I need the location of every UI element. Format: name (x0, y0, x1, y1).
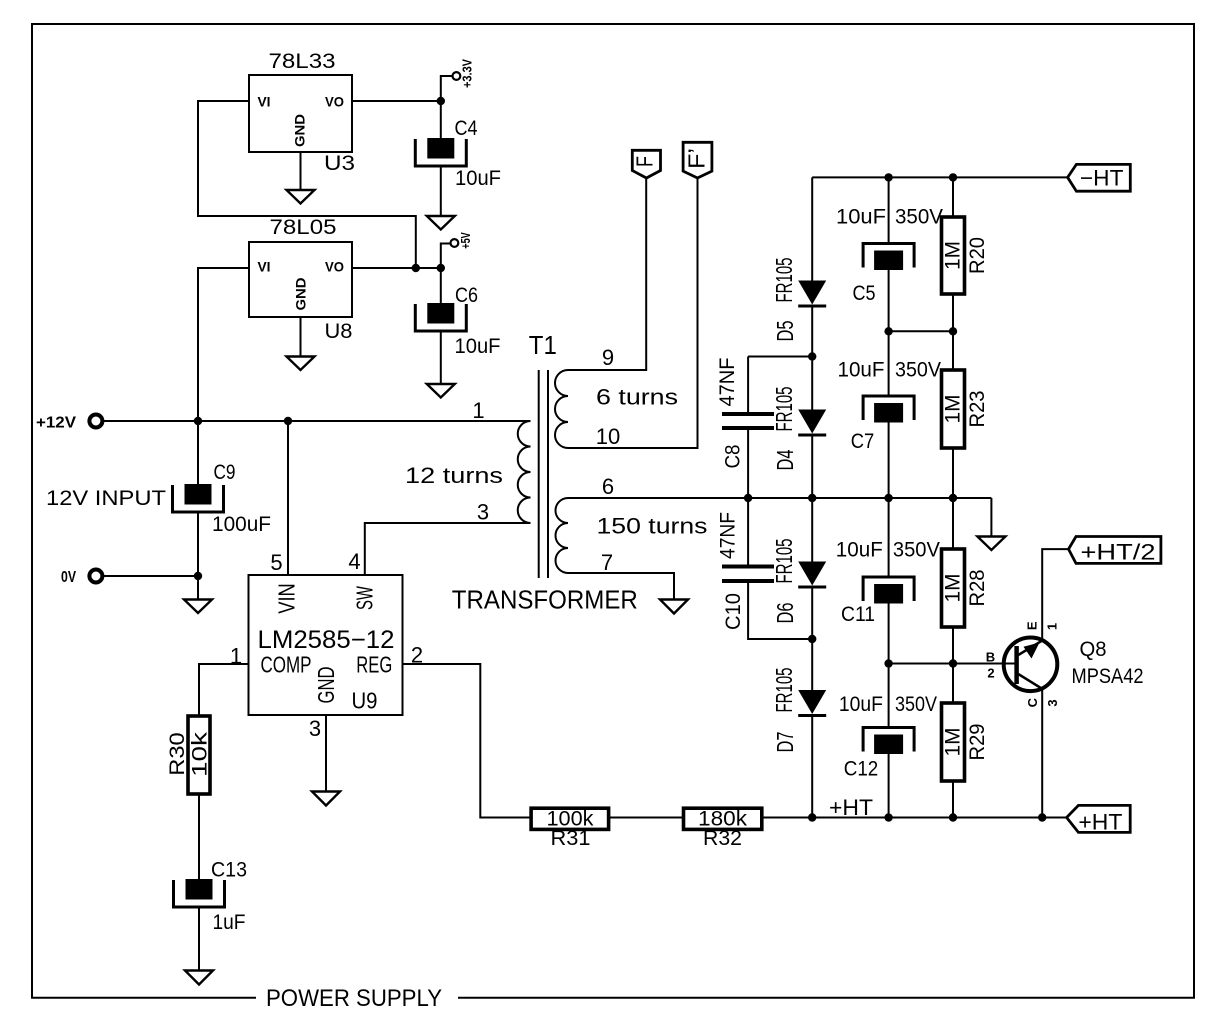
svg-text:R28: R28 (966, 570, 989, 607)
node -HT R20 (949, 173, 957, 181)
transformer secondary 6 turns winding (555, 370, 568, 448)
node U8 output to U3 route (412, 264, 420, 272)
wire C4 to ground (440, 168, 442, 217)
wire to +3.3V terminal (441, 76, 453, 101)
svg-text:VI: VI (258, 94, 271, 110)
wire U8 VI from +12V rail (198, 268, 249, 421)
svg-text:REG: REG (356, 652, 392, 678)
wire node to capacitor C6 (440, 268, 442, 303)
regulator U8 box (249, 242, 352, 317)
wire node to ground (197, 576, 199, 600)
svg-text:C: C (1025, 697, 1040, 707)
svg-text:12 turns: 12 turns (405, 463, 503, 488)
svg-text:TRANSFORMER: TRANSFORMER (452, 585, 638, 615)
wire T1 pin 6 node line (568, 497, 991, 499)
node3 resistor side (949, 659, 957, 667)
wire U9 REG to R31 (403, 664, 532, 818)
svg-text:350V: 350V (895, 693, 937, 716)
svg-text:D5: D5 (772, 321, 798, 342)
svg-text:0V: 0V (61, 569, 76, 586)
wire +12V node to C9 (197, 421, 199, 484)
wire -HT to R20 (952, 177, 954, 217)
svg-text:C9: C9 (214, 461, 236, 484)
svg-text:GND: GND (292, 114, 308, 147)
node +12V to U9 VIN (284, 417, 292, 425)
svg-text:78L33: 78L33 (269, 50, 336, 73)
svg-text:3: 3 (1045, 699, 1060, 706)
wire D7 to +HT line (811, 716, 813, 818)
wire U9 VIN (287, 421, 289, 575)
wire +HT line (762, 817, 1067, 819)
svg-text:1: 1 (472, 398, 484, 423)
svg-text:350V: 350V (895, 359, 941, 382)
wire node3 to C12 (888, 664, 890, 728)
svg-text:R32: R32 (703, 827, 742, 850)
wire to +5V terminal (441, 244, 451, 269)
svg-text:10uF: 10uF (455, 167, 501, 190)
svg-text:U3: U3 (324, 152, 355, 175)
wire node to capacitor C4 (440, 101, 442, 138)
svg-text:3: 3 (309, 716, 321, 741)
resistor R23 (942, 370, 965, 448)
svg-text:78L05: 78L05 (270, 216, 337, 239)
node +HT R29 (949, 813, 957, 821)
wire C10 top plate lead (747, 498, 749, 565)
capacitor C11 (863, 577, 914, 601)
svg-text:T1: T1 (529, 330, 557, 360)
svg-text:E: E (1025, 621, 1040, 630)
transformer secondary 150 turns winding (556, 498, 569, 573)
svg-text:−HT: −HT (1080, 166, 1124, 191)
capacitor C13 (186, 879, 213, 900)
svg-text:Q8: Q8 (1080, 638, 1107, 661)
capacitor C7 (863, 396, 914, 420)
svg-text:350V: 350V (893, 539, 940, 562)
svg-text:F: F (632, 156, 658, 167)
capacitor C4 (427, 138, 454, 159)
svg-text:FR105: FR105 (771, 668, 797, 713)
wire node2 to R28 (952, 498, 954, 549)
wire T1 pin 9 to F flag (568, 178, 646, 370)
capacitor C12 (863, 728, 914, 752)
svg-text:R23: R23 (966, 391, 989, 428)
flag F (632, 150, 660, 178)
svg-text:+12V: +12V (36, 415, 76, 432)
wire cap column -HT to C5 (888, 177, 890, 243)
resistor R28 (942, 549, 965, 627)
svg-text:D7: D7 (772, 732, 798, 753)
wire U8 GND to ground (300, 317, 302, 357)
node chain pin6 junction (808, 494, 816, 502)
transistor Q8 emitter arrow (1024, 643, 1040, 659)
node1 cap side (884, 327, 892, 335)
svg-text:10uF: 10uF (836, 206, 886, 229)
ground below U9 (312, 792, 340, 806)
svg-text:C8: C8 (722, 445, 745, 469)
svg-text:FR105: FR105 (771, 258, 797, 303)
terminal circle +5V (451, 239, 459, 247)
wire node3 row to Q8 base (889, 663, 1017, 665)
resistor R31 (531, 808, 609, 829)
resistor R32 (684, 808, 762, 829)
svg-text:+3.3V: +3.3V (460, 59, 475, 88)
wire diode chain top segment (811, 177, 813, 280)
transistor Q8 base bar (1014, 646, 1019, 684)
svg-text:47NF: 47NF (716, 358, 739, 407)
wire C9 to 0V line (197, 514, 199, 577)
wire C13 to ground (198, 909, 200, 971)
svg-text:U8: U8 (325, 320, 353, 343)
node +12V to C9 (194, 417, 202, 425)
wire C12 to +HT (888, 754, 890, 818)
svg-text:4: 4 (348, 549, 360, 574)
svg-text:12V INPUT: 12V INPUT (46, 487, 166, 510)
node +HT diode chain (808, 813, 816, 821)
svg-text:1M: 1M (942, 728, 965, 757)
terminal circle +3.3V (453, 72, 461, 80)
svg-text:COMP: COMP (261, 652, 312, 678)
svg-text:9: 9 (602, 345, 614, 370)
wire R28 to node3 (952, 627, 954, 664)
wire C7 to node2 (888, 423, 890, 499)
svg-text:47NF: 47NF (717, 512, 740, 559)
terminal circle +12V (89, 415, 102, 428)
wire node3 to R29 (952, 664, 954, 704)
node 0V to ground (194, 572, 202, 580)
ground below U8 (287, 357, 315, 371)
wire node1 row (889, 330, 953, 332)
svg-text:100uF: 100uF (212, 513, 271, 536)
resistor R30 (188, 716, 210, 794)
svg-text:MPSA42: MPSA42 (1072, 665, 1144, 688)
resistor R29 (942, 703, 965, 781)
svg-text:150 turns: 150 turns (597, 514, 708, 539)
svg-text:10uF: 10uF (839, 693, 883, 716)
node U8 output to C6 (437, 264, 445, 272)
wire C8 top to chain (748, 356, 812, 358)
svg-text:2: 2 (987, 666, 994, 681)
wire U9 COMP to R30 (199, 664, 249, 716)
svg-text:GND: GND (313, 667, 339, 704)
wire D4 to pin6 node (811, 435, 813, 562)
svg-text:10: 10 (596, 424, 620, 449)
wire Q8 collector to +HT (1041, 689, 1043, 818)
wire node1 to C7 (888, 331, 890, 396)
transformer core lines (538, 370, 540, 578)
svg-text:B: B (986, 650, 995, 665)
svg-text:1uF: 1uF (213, 911, 246, 934)
transformer T1 primary winding 12 turns (518, 421, 531, 523)
diode D5 (798, 281, 826, 305)
svg-text:10k: 10k (189, 731, 212, 777)
regulator U9 box LM2585 (249, 575, 403, 715)
resistor R20 (942, 217, 965, 294)
node1 resistor side (949, 327, 957, 335)
wire C11 to node3 (888, 604, 890, 664)
node at U3 output (437, 97, 445, 105)
svg-text:U9: U9 (352, 688, 378, 714)
svg-text:LM2585−12: LM2585−12 (258, 626, 395, 654)
svg-text:10uF: 10uF (455, 335, 501, 358)
wire U3 VO output (352, 100, 441, 102)
svg-text:SW: SW (351, 586, 377, 610)
svg-text:10uF: 10uF (836, 539, 883, 562)
svg-text:10uF: 10uF (838, 359, 885, 382)
diode D7 (798, 690, 826, 714)
node C8 C10 junction on pin6 line (744, 494, 752, 502)
svg-text:350V: 350V (895, 206, 943, 229)
ground below U3 (287, 190, 315, 204)
wire R29 to +HT (952, 781, 954, 818)
ground below pin 7 (660, 600, 688, 614)
node +HT Q8 collector (1038, 813, 1046, 821)
node -HT C5 (884, 173, 892, 181)
capacitor C9 (185, 484, 212, 505)
svg-text:C5: C5 (853, 282, 876, 305)
svg-text:GND: GND (293, 278, 309, 311)
transistor Q8 emitter (1017, 641, 1042, 656)
node2 resistor side (949, 494, 957, 502)
wire T1 pin 7 to ground (568, 573, 674, 600)
wire T1 pin 10 to F' flag (568, 178, 698, 448)
wire node1 to R23 (952, 331, 954, 370)
svg-text:1: 1 (1045, 623, 1060, 630)
svg-text:R31: R31 (551, 827, 591, 850)
wire C10 bottom to chain (748, 583, 812, 639)
diode D6 (798, 562, 826, 586)
wire U9 GND to ground (325, 715, 327, 792)
wire R23 to node2 (952, 448, 954, 498)
wire R30 to C13 (198, 794, 200, 879)
capacitor C10 (722, 565, 774, 569)
svg-text:R30: R30 (166, 732, 189, 776)
svg-text:6: 6 (602, 474, 614, 499)
svg-text:+HT: +HT (1078, 810, 1122, 835)
transistor Q8 collector (1017, 673, 1042, 689)
flag F' (683, 142, 712, 178)
wire +12V rail (103, 420, 530, 422)
svg-text:FR105: FR105 (771, 387, 797, 432)
capacitor C8 (722, 412, 774, 416)
svg-text:7: 7 (601, 550, 613, 575)
wire U8 VO output (352, 267, 441, 269)
terminal circle 0V (89, 570, 102, 583)
svg-text:1M: 1M (942, 395, 965, 424)
svg-text:6 turns: 6 turns (596, 385, 678, 410)
wire U3 VI input route (198, 101, 416, 268)
wire Q8 emitter to +HT/2 (1042, 549, 1068, 641)
svg-text:VO: VO (325, 94, 344, 110)
wire node2 to C11 (888, 498, 890, 577)
svg-text:VI: VI (258, 259, 271, 275)
wire C8 top plate lead (747, 357, 749, 413)
svg-text:C7: C7 (851, 430, 875, 453)
flag +HT (1067, 805, 1131, 832)
svg-text:D4: D4 (772, 449, 798, 470)
ground below C13 (185, 971, 213, 985)
ground below 0V node (184, 600, 212, 614)
wire R20 to node1 (952, 294, 954, 331)
svg-text:C11: C11 (841, 603, 875, 626)
svg-text:3: 3 (477, 500, 489, 525)
wire C6 to ground (440, 333, 442, 385)
svg-text:F’: F’ (684, 148, 710, 169)
ground at pin6 node (977, 537, 1005, 551)
wire C5 to node1 (888, 270, 890, 331)
svg-text:FR105: FR105 (771, 539, 797, 584)
flag -HT (1068, 164, 1131, 191)
node3 cap side (884, 659, 892, 667)
node D6-D7 junction (808, 635, 816, 643)
wire -HT line (812, 176, 1067, 178)
transistor Q8 circle (1004, 638, 1058, 692)
svg-text:1M: 1M (942, 241, 965, 270)
node D5-D4 junction (808, 352, 816, 360)
svg-text:+HT/2: +HT/2 (1081, 540, 1156, 565)
svg-text:R29: R29 (966, 724, 989, 761)
node2 cap side (884, 494, 892, 502)
svg-text:1M: 1M (942, 574, 965, 603)
node +HT C12 (884, 813, 892, 821)
wire 0V line (103, 575, 198, 577)
svg-text:VIN: VIN (274, 583, 300, 614)
svg-text:C12: C12 (844, 758, 879, 781)
svg-text:D6: D6 (772, 603, 798, 624)
wire D5 to node (811, 306, 813, 410)
svg-text:R20: R20 (966, 237, 989, 274)
svg-text:POWER SUPPLY: POWER SUPPLY (266, 985, 442, 1012)
capacitor C5 (863, 244, 914, 268)
svg-text:C13: C13 (211, 859, 247, 882)
wire C8 bottom plate to node (747, 430, 749, 498)
svg-text:C4: C4 (455, 117, 478, 140)
svg-text:C10: C10 (722, 593, 745, 630)
ground below C4 (427, 216, 455, 230)
svg-text:+5V: +5V (458, 232, 473, 249)
svg-text:+HT: +HT (829, 795, 873, 820)
diode D4 (798, 410, 826, 434)
regulator U3 box (249, 75, 352, 152)
wire U3 GND to ground (300, 152, 302, 190)
svg-text:C6: C6 (455, 284, 478, 307)
wire U9 SW to transformer pin 3 (365, 523, 531, 575)
svg-text:VO: VO (325, 259, 344, 275)
svg-text:5: 5 (270, 550, 282, 575)
flag +HT/2 (1069, 537, 1161, 564)
ground below C6 (427, 384, 455, 398)
wire D6 to D7 (811, 587, 813, 690)
capacitor C6 (427, 303, 454, 324)
wire pin6 node to ground (990, 498, 992, 537)
wire R31 to R32 (609, 817, 684, 819)
